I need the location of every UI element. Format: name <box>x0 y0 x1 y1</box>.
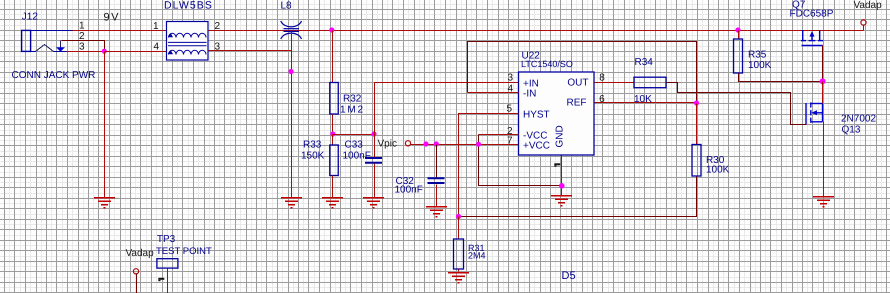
svg-text:R34: R34 <box>635 57 654 68</box>
node I junction -VCC crossing Vpic rail <box>476 142 481 147</box>
pin number 1 of TP3 rotated <box>158 278 164 281</box>
resistor R35 <box>734 39 743 73</box>
wire node G down to C32 <box>436 145 438 179</box>
ground below C33 <box>363 198 384 208</box>
wire J12 pin3 to node A <box>67 51 105 53</box>
wire C32 bottom to ground <box>436 185 438 207</box>
wire node A down to ground <box>104 52 106 198</box>
wire OUT pin8 of U22 to R34 <box>595 82 635 84</box>
wire Vpic to +VCC pin of U22 <box>411 144 519 146</box>
ground below J12 <box>94 198 115 208</box>
svg-text:R32: R32 <box>343 94 362 105</box>
power port Vadap terminal top right <box>861 20 866 25</box>
wire TP3 pin down <box>167 269 169 293</box>
svg-text:8: 8 <box>599 73 605 84</box>
ground below node C <box>281 198 302 208</box>
svg-text:100nF: 100nF <box>343 151 371 162</box>
wire DLW5BS pin3 to node C column <box>209 50 292 52</box>
transistor Q13 2N7002 N-MOSFET <box>806 102 823 124</box>
wire Vadap bottom terminal down <box>136 274 138 293</box>
node B junction on 9V rail <box>329 27 334 32</box>
ground below C32 <box>426 207 447 217</box>
svg-text:6: 6 <box>599 94 605 105</box>
wire R30 bottom to bottom rail <box>459 177 697 217</box>
resistor R33 <box>330 145 339 176</box>
svg-text:LTC1540/SO: LTC1540/SO <box>521 59 573 69</box>
svg-text:100nF: 100nF <box>395 185 423 196</box>
wire node J down to R30 <box>696 104 698 145</box>
resistor R31 <box>454 239 464 269</box>
node E junction +IN/C33 <box>371 131 376 136</box>
wire -IN pin4 of U22 <box>468 92 519 94</box>
ground below Q13 <box>813 197 834 207</box>
svg-text:HYST: HYST <box>523 110 550 121</box>
node M junction Q7 gate / R35 / Q13 drain <box>820 78 826 84</box>
svg-text:DLW5BS: DLW5BS <box>164 0 213 12</box>
node C junction <box>288 69 293 74</box>
wire DLW5BS pin2 to node B through L8 to Vadap <box>209 30 864 32</box>
svg-text:100K: 100K <box>748 60 772 71</box>
svg-text:3: 3 <box>79 42 85 53</box>
wire REF pin6 of U22 to node J <box>595 102 697 104</box>
svg-text:Q13: Q13 <box>842 125 861 136</box>
node L junction R35 top on 9V rail <box>735 27 740 32</box>
wire R31 bottom to ground <box>458 270 460 272</box>
svg-text:1M2: 1M2 <box>340 104 365 115</box>
svg-text:Vadap: Vadap <box>126 248 155 259</box>
svg-text:-IN: -IN <box>523 89 536 100</box>
wire node A to DLW5BS pin4 <box>105 51 167 53</box>
wire R32 bottom to node D <box>332 115 334 135</box>
svg-text:150K: 150K <box>301 151 325 162</box>
power port Vadap terminal bottom left <box>133 269 138 274</box>
svg-text:GND: GND <box>555 125 566 147</box>
svg-text:3: 3 <box>507 73 513 84</box>
wire node B down to R32 <box>332 31 334 83</box>
capacitor C33 <box>365 158 382 163</box>
svg-text:Vpic: Vpic <box>378 139 397 150</box>
transistor Q7 FDC658P P-MOSFET <box>801 30 823 46</box>
test point TP3 body <box>157 259 178 268</box>
capacitor C32 <box>428 178 445 183</box>
wire node K down to R31 <box>458 217 460 240</box>
svg-text:L8: L8 <box>281 1 293 12</box>
svg-text:+VCC: +VCC <box>523 140 550 151</box>
wire Q13 source to ground <box>823 122 825 197</box>
node K junction bottom rail <box>456 214 461 219</box>
node J junction REF/R30 <box>694 100 699 105</box>
svg-text:TEST POINT: TEST POINT <box>156 246 212 257</box>
wire node D down to R33 <box>332 135 334 146</box>
svg-text:10K: 10K <box>634 94 652 105</box>
wire feedback loop over IC from -IN to REF node <box>468 42 697 103</box>
wire R33 bottom to ground <box>332 176 334 198</box>
wire Q7 gate down to node M <box>822 46 824 82</box>
svg-text:2M4: 2M4 <box>468 250 486 260</box>
svg-text:FDC658P: FDC658P <box>790 8 834 19</box>
ground below U22 <box>551 196 572 206</box>
wire Vadap terminal to 9V rail <box>863 26 865 31</box>
svg-text:R35: R35 <box>748 50 767 61</box>
common-mode choke FL DLW5BS body <box>167 22 209 61</box>
svg-text:4: 4 <box>153 42 159 53</box>
resistor R34 <box>634 77 666 88</box>
wire node M down to Q13 drain <box>822 82 824 104</box>
pin number 1 of U22 rotated <box>554 163 560 166</box>
wire C33 bottom to ground <box>374 164 376 198</box>
svg-text:7: 7 <box>507 136 513 147</box>
node H junction at U22 ground <box>559 183 565 189</box>
wire GND pin1 of U22 down to ground <box>561 156 563 197</box>
svg-text:OUT: OUT <box>567 78 588 89</box>
op-amp comparator U22 LTC1540/SO body <box>519 72 595 155</box>
wire -VCC down to ground node H <box>479 135 562 186</box>
wire 9V rail J12 pin1 to DLW5BS pin1 <box>73 30 167 32</box>
svg-text:J12: J12 <box>22 12 39 23</box>
svg-text:R33: R33 <box>303 140 322 151</box>
node A junction at jack output <box>102 49 107 54</box>
ground below R33 <box>322 198 343 208</box>
node D junction R32/R33 <box>330 131 335 136</box>
svg-text:CONN JACK PWR: CONN JACK PWR <box>12 70 96 81</box>
node G junction C32 tap <box>434 141 439 146</box>
svg-text:100K: 100K <box>706 165 730 176</box>
node F junction on Vpic rail <box>423 141 428 146</box>
wire node B column down from L8 to ground <box>291 32 293 198</box>
wire node D to node E <box>333 134 375 136</box>
wire R34 to gate of Q13 <box>667 83 807 125</box>
svg-text:1: 1 <box>153 21 159 32</box>
svg-text:TP3: TP3 <box>157 234 176 245</box>
svg-text:1: 1 <box>79 21 85 32</box>
inductor ferrite bead L8 <box>281 21 302 39</box>
svg-text:REF: REF <box>567 98 587 109</box>
connector J12 CONN JACK PWR <box>22 30 73 51</box>
wire J12 pin2 to node A <box>62 41 105 52</box>
resistor R30 <box>692 145 701 177</box>
power port Vpic terminal <box>405 141 410 146</box>
wire R35 bottom to node M <box>739 74 823 82</box>
wire -VCC pin2 of U22 <box>479 134 519 136</box>
svg-text:9V: 9V <box>104 12 120 24</box>
ground below R31 <box>448 273 469 283</box>
wire node E down to C33 <box>374 135 376 159</box>
resistor R32 <box>330 83 339 115</box>
svg-text:Vadap: Vadap <box>854 0 883 11</box>
svg-text:C33: C33 <box>345 140 364 151</box>
wire node E up to +IN of U22 <box>375 83 519 135</box>
wire HYST pin5 down to bottom rail <box>459 114 519 217</box>
svg-text:2N7002: 2N7002 <box>841 114 876 125</box>
wire node L down to R35 <box>738 31 740 40</box>
svg-text:D5: D5 <box>562 270 576 282</box>
